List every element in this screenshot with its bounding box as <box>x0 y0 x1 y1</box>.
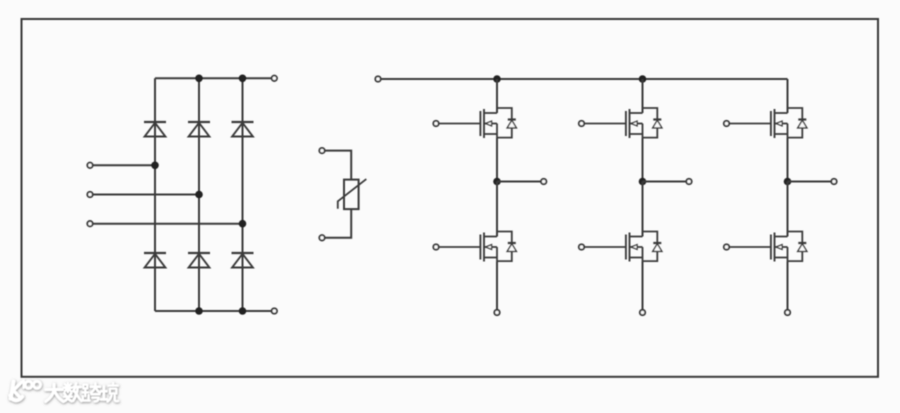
body diode D6l of Q6 <box>788 232 807 262</box>
wire phase S to leg2 <box>93 194 199 196</box>
terminal gate Q4 (open circle) <box>579 244 584 249</box>
varistor RV1 (box with bent diagonal) <box>338 179 367 209</box>
wire phase W output <box>788 181 832 183</box>
wire phase U output <box>497 181 541 183</box>
junction phase R node <box>151 162 159 170</box>
wire Q1 source to phase U node <box>496 138 498 182</box>
wire Q1 drain to DC+ rail <box>496 79 498 113</box>
terminal RV1 bottom (open circle) <box>319 235 324 240</box>
junction DC+ rail / leg 1 <box>493 75 501 83</box>
body diode D1u of Q1 <box>497 108 516 138</box>
terminal gate Q3 (open circle) <box>579 121 584 126</box>
junction leg3 / DC+ rail <box>239 75 247 83</box>
junction DC+ rail / leg 2 <box>639 75 647 83</box>
wire rectifier DC- rail <box>155 310 272 312</box>
wire Q3 drain to DC+ rail <box>642 79 644 113</box>
wire gate lead Q6 <box>729 246 771 248</box>
junction phase T node <box>239 220 247 228</box>
wire RV1 bottom lead <box>325 209 352 238</box>
wire gate lead Q4 <box>584 246 626 248</box>
wire Q6 source to output terminal <box>787 261 789 310</box>
terminal gate Q5 (open circle) <box>724 121 729 126</box>
wire rectifier leg 1 vertical <box>154 78 156 311</box>
wire Q2 source to output terminal <box>496 261 498 310</box>
transistor Q3 (N-MOSFET) <box>626 109 643 138</box>
transistor Q5 (N-MOSFET) <box>771 109 788 138</box>
wire inverter DC+ rail <box>381 78 788 80</box>
diode D3 (upper leg2) <box>188 122 210 137</box>
transistor Q6 (N-MOSFET) <box>771 233 788 262</box>
body diode D5u of Q5 <box>788 108 807 138</box>
wire Q5 drain to DC+ rail <box>787 79 789 113</box>
terminal RV1 top (open circle) <box>319 148 324 153</box>
diode D4 (lower leg2) <box>188 253 210 268</box>
wire phase V node to Q4 drain <box>642 182 644 237</box>
transistor Q2 (N-MOSFET) <box>480 233 497 262</box>
terminal gate Q6 (open circle) <box>724 244 729 249</box>
terminal AC input phase S (open circle) <box>87 192 92 197</box>
wire gate lead Q2 <box>439 246 481 248</box>
wire gate lead Q1 <box>439 123 481 125</box>
diode D2 (lower leg1) <box>144 253 166 268</box>
terminal rectifier DC+ output (open circle) <box>272 76 277 81</box>
wire gate lead Q5 <box>729 123 771 125</box>
wire rectifier leg 3 vertical <box>242 78 244 311</box>
body diode D4l of Q4 <box>643 232 662 262</box>
junction leg2 / DC+ rail <box>195 75 203 83</box>
terminal gate Q1 (open circle) <box>433 121 438 126</box>
terminal rectifier DC- output (open circle) <box>272 308 277 313</box>
junction leg3 / DC- rail <box>239 307 247 315</box>
wire Q5 source to phase W node <box>787 138 789 182</box>
junction phase V node <box>639 178 647 186</box>
terminal AC input phase T (open circle) <box>87 221 92 226</box>
terminal phase W output (open circle) <box>831 179 836 184</box>
diode D6 (lower leg3) <box>232 253 254 268</box>
junction phase U node <box>493 178 501 186</box>
terminal gate Q2 (open circle) <box>433 244 438 249</box>
wire Q4 source to output terminal <box>642 261 644 310</box>
terminal phase V output (open circle) <box>686 179 691 184</box>
wire Q3 source to phase V node <box>642 138 644 182</box>
terminal Q6 source output (open circle) <box>785 310 790 315</box>
diode D1 (upper leg1) <box>144 122 166 137</box>
terminal phase U output (open circle) <box>541 179 546 184</box>
transistor Q1 (N-MOSFET) <box>480 109 497 138</box>
terminal inverter DC+ input (open circle) <box>375 76 380 81</box>
wire RV1 top lead <box>325 151 352 180</box>
diode D5 (upper leg3) <box>232 122 254 137</box>
wire phase W node to Q6 drain <box>787 182 789 237</box>
terminal Q4 source output (open circle) <box>640 310 645 315</box>
wire gate lead Q3 <box>584 123 626 125</box>
body diode D2l of Q2 <box>497 232 516 262</box>
wire phase R to leg1 <box>93 164 155 166</box>
wire phase T to leg3 <box>93 223 243 225</box>
transistor Q4 (N-MOSFET) <box>626 233 643 262</box>
body diode D3u of Q3 <box>643 108 662 138</box>
wire rectifier leg 2 vertical <box>198 78 200 311</box>
wire rectifier DC+ rail <box>155 77 272 79</box>
wire phase U node to Q2 drain <box>496 182 498 237</box>
junction phase W node <box>784 178 792 186</box>
junction leg2 / DC- rail <box>195 307 203 315</box>
terminal AC input phase R (open circle) <box>87 163 92 168</box>
wire phase V output <box>643 181 687 183</box>
terminal Q2 source output (open circle) <box>494 310 499 315</box>
junction phase S node <box>195 191 203 199</box>
